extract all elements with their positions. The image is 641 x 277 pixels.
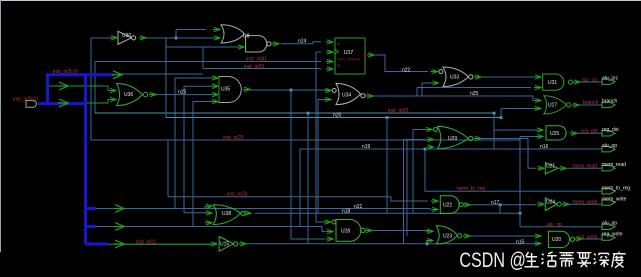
wire n23 U36 out to U35 (149, 94, 211, 96)
wire inst_in[2] (91, 38, 520, 140)
svg-text:n15: n15 (516, 239, 525, 245)
wire U33 out to U31 (481, 76, 536, 78)
svg-text:U33: U33 (450, 75, 459, 81)
nor gate U29 (434, 126, 473, 148)
port alu_src (602, 79, 615, 84)
wire U24 out to port mem_write (569, 203, 602, 205)
wire n17 branch down to alu_op0? (499, 205, 501, 213)
port mem_write (602, 200, 615, 205)
svg-text:D: D (337, 41, 340, 46)
wire after bus arrow (118, 73, 203, 75)
wire U29 in2 (404, 140, 426, 245)
svg-text:branch: branch (583, 100, 599, 106)
svg-text:U21: U21 (546, 164, 555, 170)
svg-text:FDC_RSEH1: FDC_RSEH1 (337, 57, 362, 62)
svg-text:U36: U36 (124, 92, 133, 98)
junction on alu_op1 net (424, 148, 427, 151)
port alu_op1 (602, 147, 615, 152)
wire U38 out n18 to right (255, 212, 520, 214)
bus inst_in(5:0) thick blue (38, 75, 114, 244)
inverter U30 (118, 31, 136, 44)
svg-text:inst_in(5:0): inst_in(5:0) (13, 97, 38, 103)
wire inverter U30 output (141, 30, 214, 39)
and gate U35 (219, 77, 241, 103)
wire U36 input a jog (108, 86, 112, 91)
wire U38 in1 branch (205, 206, 207, 208)
wire U36 input b jog (108, 100, 112, 104)
wire U27 in2 from n20 (501, 109, 534, 118)
svg-text:U30: U30 (122, 33, 131, 39)
port reg_dst (602, 131, 615, 136)
svg-text:reg_write: reg_write (602, 231, 623, 237)
svg-text:reg_dst: reg_dst (602, 127, 619, 133)
svg-text:mem_read: mem_read (602, 162, 626, 168)
wire n20 (165, 38, 167, 118)
svg-text:n20: n20 (333, 113, 342, 119)
svg-text:alu_src: alu_src (582, 77, 599, 83)
svg-text:mem_write: mem_write (602, 197, 627, 203)
watermark glyph huo (542, 252, 557, 266)
watermark glyph xu (559, 253, 573, 267)
svg-text:n24: n24 (298, 39, 307, 45)
bus arrow tap u28 (114, 223, 124, 231)
wire U15 out n15 long (246, 243, 538, 245)
watermark glyph sheng (524, 252, 538, 267)
wire U20 out to port reg_write (582, 238, 602, 239)
svg-text:R: R (337, 63, 340, 68)
wire vertical x387 (387, 118, 407, 237)
wire U28 out to U23 in1 (372, 230, 429, 233)
watermark CSDN text (459, 249, 526, 273)
svg-text:U35: U35 (221, 87, 230, 93)
wire U33 in2 from n25 branch (422, 83, 432, 96)
junction on n20 net right (500, 116, 503, 119)
wire clock stub to U17 (316, 51, 321, 53)
svg-text:U28: U28 (341, 228, 350, 234)
watermark glyph yao (577, 253, 591, 267)
svg-text:U25: U25 (550, 131, 559, 137)
svg-text:branch: branch (602, 99, 618, 105)
svg-text:mem_to_reg: mem_to_reg (602, 185, 630, 191)
flip-flop U17 (335, 38, 365, 74)
svg-text:inst_in[1]: inst_in[1] (136, 240, 157, 246)
svg-text:n18: n18 (342, 208, 351, 214)
svg-text:n16: n16 (540, 144, 549, 150)
wire n18 into U38 (184, 212, 207, 214)
buffer U21 (545, 163, 558, 175)
svg-text:U17: U17 (344, 50, 353, 56)
junction on inst_in[0] net (493, 112, 496, 115)
nor gate U33 (439, 67, 473, 87)
svg-text:alu_op: alu_op (547, 222, 562, 228)
svg-text:U31: U31 (548, 80, 557, 86)
nor gate U36 (117, 84, 148, 106)
wire U35 out to U34 (250, 89, 329, 91)
svg-text:reg_dst: reg_dst (581, 129, 598, 135)
or-nand gate U8 (221, 25, 271, 52)
wire inst_in[4] (95, 61, 321, 63)
svg-text:U23: U23 (443, 234, 452, 240)
wire inst_in[1] into U15 (108, 243, 212, 245)
nand gate U22 (440, 196, 463, 214)
svg-text:inst_in[0]: inst_in[0] (388, 108, 409, 114)
svg-text:inst_in[4]: inst_in[4] (246, 57, 267, 63)
nand gate U20 (548, 231, 574, 247)
inverter U15 (219, 237, 238, 252)
screenshot border top (0, 0, 641, 2)
wire U35 in4 (193, 102, 211, 227)
svg-text:U15: U15 (220, 242, 229, 248)
and gate U25 (546, 126, 566, 140)
inverter U24 (545, 198, 561, 211)
svg-text:reg_write: reg_write (577, 235, 598, 241)
svg-text:U34: U34 (342, 93, 351, 99)
wire n22 (374, 55, 428, 72)
svg-text:mem_to_reg: mem_to_reg (457, 186, 485, 192)
svg-text:inst_in(5:0): inst_in(5:0) (53, 69, 78, 75)
port branch (602, 102, 615, 107)
wire bus tap to U28 in2 (96, 227, 325, 232)
wire U29 in1 (413, 130, 425, 214)
svg-text:alu_op: alu_op (602, 143, 617, 149)
junction on inst_in[0] net mid (307, 112, 310, 115)
wire n25 U34 out (373, 96, 536, 101)
wire mem_to_reg to port (425, 149, 602, 191)
watermark glyph shen (594, 253, 609, 267)
wire U34 in2 (318, 100, 328, 214)
wire U31 in2 (417, 88, 531, 97)
nor gate U34 (332, 84, 365, 105)
wire U25 out to port reg_dst (577, 132, 602, 134)
svg-text:U20: U20 (552, 237, 561, 243)
wire n24 (281, 42, 321, 44)
wire n21 (96, 209, 430, 210)
port mem_to_reg (602, 189, 615, 194)
wire U28 in3 (291, 149, 325, 239)
junction on n15 net (426, 243, 429, 246)
wire inst_in[3] (168, 140, 391, 197)
wire U27 out to port branch (579, 104, 602, 106)
svg-text:U24: U24 (546, 200, 555, 206)
svg-text:U29: U29 (448, 136, 457, 142)
bus arrow on inst bus (112, 71, 122, 79)
svg-text:n19: n19 (362, 144, 371, 150)
svg-text:alu_op: alu_op (602, 221, 617, 227)
svg-text:n25: n25 (470, 91, 479, 97)
junction on U30 output net (175, 37, 178, 40)
wire branch into U23 in2 (427, 241, 429, 244)
svg-text:U8: U8 (243, 34, 250, 40)
wire inst_in[5] (203, 47, 321, 69)
wire U23 out to U20 in1 (470, 235, 538, 237)
port mem_read (602, 166, 615, 171)
wire U25 in1 from inst_in[0] (494, 113, 536, 149)
junction on U35 output net (290, 89, 293, 92)
wire U22 out n17 to U24 (470, 204, 536, 206)
bus arrow fanout a (58, 82, 68, 90)
port alu_op0 (602, 224, 615, 229)
wire inverter U30 input (91, 37, 112, 39)
svg-text:inst_in[5]: inst_in[5] (244, 64, 265, 70)
svg-text:CSDN @: CSDN @ (459, 249, 526, 273)
junction on n20 net (386, 116, 389, 119)
wire n24 top OR input (176, 29, 206, 31)
svg-text:n17: n17 (491, 200, 500, 206)
wire inst_in[0] (94, 62, 96, 114)
wire U21 out to port mem_read (566, 167, 602, 169)
nand gate U31 (543, 74, 573, 90)
green bus fanout wires (48, 86, 211, 244)
wire U35 in2 (184, 86, 211, 213)
screenshot border left (0, 0, 2, 252)
vertical net from U35 out junction (290, 90, 292, 239)
wire U25 in2 from inst_in[2] (520, 137, 536, 227)
bus arrow tap n21 (114, 205, 124, 213)
svg-text:inst_in[2]: inst_in[2] (223, 135, 244, 141)
nor gate U27 (544, 96, 571, 114)
svg-text:mem_write: mem_write (573, 200, 598, 206)
nand gate U28 (332, 220, 365, 242)
wire n19 / n16 long to port (300, 148, 602, 150)
svg-text:U22: U22 (443, 203, 452, 209)
wire U28 in1 from clock vertical (316, 52, 326, 222)
bus arrow fanout b (58, 99, 68, 107)
svg-text:alu_src: alu_src (602, 76, 619, 82)
wire vertical x308 (307, 113, 309, 244)
wire U35 in1 (175, 78, 211, 209)
nor gate U38 (213, 205, 245, 225)
bus arrow tap inst1 (114, 240, 124, 248)
wire inst_in[3] jog into U22 (391, 197, 428, 201)
svg-text:n21: n21 (354, 204, 363, 210)
port reg_write (602, 235, 615, 240)
svg-text:U27: U27 (548, 103, 557, 109)
wire U8 lower input (166, 46, 237, 48)
junction on n17 net (499, 203, 502, 206)
svg-text:inst_in[3]: inst_in[3] (227, 191, 248, 197)
svg-text:n23: n23 (178, 90, 187, 96)
svg-text:U38: U38 (222, 211, 231, 217)
nor gate U23 (436, 226, 462, 244)
wire alu_op0 to port (520, 226, 602, 228)
wire U31 out to port alu_src (580, 81, 602, 83)
wire U29 out to U21 buffer (481, 139, 536, 169)
junction on n18 net (519, 212, 522, 215)
svg-text:mem_read: mem_read (573, 164, 597, 170)
input port inst_in(5:0) (26, 101, 36, 108)
watermark glyph du (612, 252, 626, 268)
svg-text:n22: n22 (402, 68, 411, 74)
